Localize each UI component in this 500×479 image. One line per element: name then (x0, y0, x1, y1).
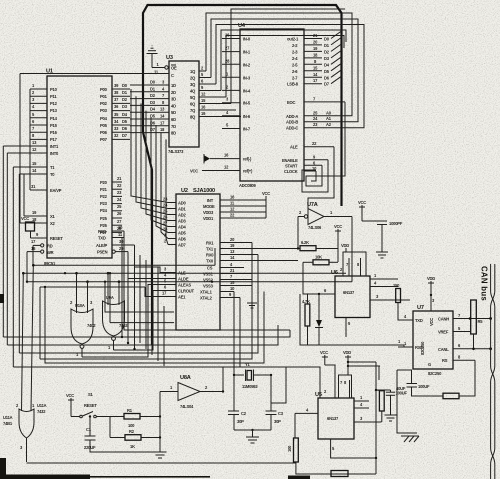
svg-text:XTAL2: XTAL2 (200, 296, 213, 301)
svg-text:ADD-B: ADD-B (286, 120, 298, 125)
wire U9A output to U2 (114, 291, 169, 351)
U1 pin T1 15 (13, 161, 55, 170)
node dot RD/U9A (107, 272, 110, 275)
U3 pin C (20, 73, 174, 223)
svg-text:P06: P06 (100, 130, 108, 135)
svg-text:CAN bus: CAN bus (480, 266, 489, 301)
svg-text:EA/VP: EA/VP (50, 188, 62, 193)
svg-text:ADD-C: ADD-C (286, 126, 298, 131)
svg-text:VSS3: VSS3 (203, 284, 214, 289)
resistor R5 120 termination (469, 300, 484, 350)
capacitor C2 30P (228, 411, 247, 430)
node dot WR/U10A (86, 280, 89, 283)
svg-text:C: C (171, 73, 174, 78)
U4 pin ref(+) 12, VCC (190, 165, 253, 174)
svg-text:4D: 4D (171, 103, 176, 108)
inverter U8A 74LS04 (160, 375, 223, 409)
svg-text:VCC: VCC (66, 393, 74, 398)
svg-text:PSEN: PSEN (97, 250, 108, 255)
svg-text:AD7: AD7 (178, 243, 187, 248)
svg-text:100: 100 (287, 445, 292, 452)
svg-text:U11A: U11A (37, 403, 47, 408)
svg-text:ALDE: ALDE (178, 277, 189, 282)
svg-text:30P: 30P (274, 419, 281, 424)
svg-text:74LS04: 74LS04 (180, 404, 194, 409)
svg-text:AD6: AD6 (178, 237, 187, 242)
svg-text:P22: P22 (100, 194, 108, 199)
svg-text:U8A: U8A (180, 375, 191, 381)
svg-text:CLOCK: CLOCK (284, 169, 298, 174)
svg-text:LSB-8: LSB-8 (287, 82, 299, 87)
node dots CANH CANL at bus (489, 317, 492, 350)
svg-text:6D: 6D (171, 117, 176, 122)
svg-text:P25: P25 (100, 216, 108, 221)
svg-text:VDD: VDD (427, 276, 435, 281)
crystal Y1 oscillator loop (223, 292, 286, 412)
resistor 10K (303, 255, 338, 295)
svg-text:P10: P10 (50, 87, 58, 92)
U3 pin OE 11 (bubble, tied to ground) (152, 54, 177, 75)
capacitor 100UF at U7 (396, 370, 430, 396)
svg-text:VCC: VCC (320, 350, 328, 355)
svg-text:VCC: VCC (262, 191, 270, 196)
U4 pin ADD-B 24 A1 (286, 116, 349, 125)
IC U1 89C51 (44, 69, 112, 267)
wire EA (29, 89, 31, 190)
svg-text:AD2: AD2 (178, 213, 187, 218)
svg-text:U10A: U10A (75, 303, 85, 308)
wire vertical bundle left of U2 (122, 238, 164, 367)
U4 pin ADD-A 25 A0 (286, 110, 342, 119)
svg-text:P07: P07 (100, 137, 108, 142)
svg-text:AD0: AD0 (178, 201, 187, 206)
resistor 10K at RS (420, 393, 459, 399)
wire U7A output down the right (351, 217, 353, 282)
module boundary thick rounded outline (143, 5, 342, 345)
ground below 100UF (385, 415, 397, 421)
svg-text:CANL: CANL (438, 347, 449, 352)
svg-text:OE: OE (171, 66, 177, 71)
wire bottom long rail from U11A (27, 462, 296, 464)
svg-text:P17: P17 (50, 137, 58, 142)
svg-text:VCC: VCC (334, 224, 342, 229)
svg-text:ALEAS: ALEAS (178, 283, 191, 288)
node dots bundle (44, 272, 213, 463)
U4 data bus fan diagonals to top bus (331, 31, 342, 84)
svg-text:U3: U3 (166, 55, 173, 61)
U2 right pins RX1 TX1 RX0 TX0 and VSS group (200, 237, 300, 301)
svg-text:6N137: 6N137 (343, 290, 355, 295)
wire RX line to U7 RXD (300, 294, 413, 347)
wire U7A input from TX1 (297, 217, 299, 249)
resistor on bottom rail (cut by scan) (331, 471, 348, 477)
node dots crystal loop (222, 374, 272, 431)
wire WR line from U1 across (26, 252, 352, 283)
diode U6 input LED (315, 293, 323, 345)
transceiver U7 82C250 (413, 305, 453, 376)
VCC symbol above 6.2K (334, 224, 342, 262)
svg-text:P03: P03 (100, 108, 108, 113)
svg-text:1000PF: 1000PF (389, 221, 403, 226)
svg-text:P21: P21 (100, 187, 108, 192)
wire U6 bottom pin 5 (346, 318, 351, 338)
svg-text:7432: 7432 (37, 409, 46, 414)
svg-text:IN-5: IN-5 (243, 101, 251, 106)
resistor vertical 150 right of U6 (393, 283, 403, 320)
left vertical wire INT1 down to bus (2, 146, 4, 337)
U1 pin X2 18 (20, 217, 56, 226)
svg-text:RXD: RXD (98, 229, 106, 234)
U1 left pins P10-P17 pins 1-8 (30, 83, 58, 142)
svg-text:7D: 7D (171, 124, 176, 129)
VCC symbol right of U2 (262, 191, 270, 218)
OR gate U11A 7432 pointing down (3, 265, 47, 462)
svg-text:6.2K: 6.2K (301, 240, 309, 245)
svg-text:U11A: U11A (3, 415, 13, 420)
svg-text:AD5: AD5 (178, 231, 187, 236)
svg-text:2-3: 2-3 (292, 49, 298, 54)
svg-text:INT1: INT1 (50, 144, 59, 149)
svg-text:P02: P02 (100, 101, 108, 106)
wire bus line y265 from WR region (32, 248, 215, 267)
IC U2 SJA1000 CAN controller (176, 188, 220, 330)
U4 pin ADD-C 23 A2 (286, 122, 356, 131)
resistor 4.7K vertical (302, 294, 310, 345)
VCC symbol right with 1000PF cap (358, 200, 382, 221)
svg-text:VDD: VDD (343, 350, 351, 355)
svg-text:VSS1: VSS1 (203, 272, 214, 277)
U4 pin ref(-) 16 with bus arrow (204, 153, 252, 164)
svg-text:CLROUT: CLROUT (178, 289, 195, 294)
svg-text:EOC: EOC (287, 100, 296, 105)
svg-text:IN-4: IN-4 (243, 88, 251, 93)
svg-text:VCC: VCC (190, 169, 198, 174)
svg-text:ALE: ALE (290, 145, 298, 150)
U4 pin ALE 22 (290, 141, 334, 150)
wire pair to U2 lower-left region (104, 272, 174, 323)
svg-text:RD: RD (47, 244, 53, 249)
optocoupler U5 6N137 (315, 389, 354, 439)
ground below 1000PF (376, 252, 388, 258)
svg-text:VDD: VDD (341, 243, 349, 248)
ground below U2 VSS pins (247, 274, 257, 309)
svg-text:INT0: INT0 (50, 151, 59, 156)
vertical control wires between U1 and bus (140, 255, 164, 361)
wire from U5 pin1 up to rail (378, 366, 380, 380)
svg-text:P13: P13 (50, 108, 58, 113)
svg-text:TXD: TXD (98, 236, 106, 241)
VDD symbol above U5 (343, 350, 380, 375)
hatched ground bottom right (397, 370, 419, 442)
resistor vertical right of U5 (376, 390, 384, 422)
U4 pin CLOCK 10 (284, 166, 317, 174)
svg-text:AE1: AE1 (178, 295, 186, 300)
svg-text:10K: 10K (315, 255, 322, 260)
svg-text:MODE: MODE (203, 204, 215, 209)
IC U4 ADC0809 (238, 23, 304, 188)
svg-text:SJA1000: SJA1000 (193, 188, 215, 194)
node dot WR/U9A (118, 280, 121, 283)
U2 left pins AD0-AD7 (163, 197, 187, 248)
wire bus line y287 (40, 287, 168, 359)
svg-text:74LS06: 74LS06 (308, 225, 322, 230)
svg-text:1D: 1D (171, 83, 176, 88)
svg-text:P11: P11 (50, 94, 57, 99)
svg-text:U5: U5 (315, 392, 322, 398)
ground at U3 OE (147, 46, 158, 54)
resistor 100 vertical bottom left of U5 (287, 438, 376, 474)
U1 pin INT1 13 (3, 140, 59, 149)
U1 right pins P00-P07 pins 39-32 with D0-D7 labels (100, 83, 130, 142)
U1 pin ALE/P 30 (96, 239, 135, 248)
wire START loop (306, 102, 345, 186)
left vertical wire T1 down (12, 167, 14, 367)
svg-text:ADD-A: ADD-A (286, 114, 298, 119)
svg-text:P14: P14 (50, 116, 58, 121)
capacitor 100UF at U5 (376, 390, 407, 415)
U2 right pins INT MODE VDD3 VDD1 (203, 195, 266, 222)
svg-text:RXD: RXD (415, 345, 423, 350)
U5 pins 7 8 loop (335, 375, 352, 398)
U7 pin RS 8 (442, 355, 475, 364)
svg-text:P23: P23 (100, 201, 108, 206)
left vertical X1 (23, 174, 25, 216)
svg-text:VREF: VREF (438, 330, 449, 335)
NOR gate U10A 7402 pointing down (70, 273, 96, 357)
wire U1 ALE to U2 ALE (135, 245, 169, 273)
svg-text:CS: CS (207, 266, 213, 271)
U7 pin CANL 6 (438, 343, 491, 352)
U3 left pins 1D-8D with D0-D7 wire labels (130, 80, 176, 136)
svg-text:U7A: U7A (307, 202, 318, 208)
svg-text:ENABLE: ENABLE (282, 158, 298, 163)
svg-text:ref(-): ref(-) (243, 157, 252, 162)
svg-text:2-2: 2-2 (292, 43, 298, 48)
wire ALE loop from U4 to lower logic (308, 147, 334, 217)
svg-text:8D: 8D (171, 131, 176, 136)
svg-text:P24: P24 (100, 208, 108, 213)
wire ENABLE loop (302, 160, 328, 192)
svg-text:RESET: RESET (84, 403, 97, 408)
svg-text:30P: 30P (237, 419, 244, 424)
scan artifact marks (0, 294, 310, 479)
wire data bus verticals U1/U3 to U2 AD0-AD7 (131, 89, 168, 245)
U7 pin VREF 5 (438, 326, 470, 335)
wire reset node vertical + ground (154, 392, 167, 459)
svg-text:ALE/P: ALE/P (96, 243, 108, 248)
switch S1 RESET (71, 392, 124, 418)
svg-text:RX0: RX0 (206, 253, 214, 258)
U1 pin RXD 10 (98, 225, 124, 234)
U1 pin WR 16 (bubble) (27, 246, 54, 255)
svg-text:P15: P15 (50, 123, 58, 128)
svg-text:IN-2: IN-2 (243, 62, 251, 67)
svg-text:AD1: AD1 (178, 207, 187, 212)
svg-text:IN-7: IN-7 (243, 127, 251, 132)
svg-text:2-5: 2-5 (292, 62, 298, 67)
svg-text:TXD: TXD (415, 318, 423, 323)
U4 left pins IN-0..IN-7 (222, 33, 251, 132)
svg-text:U2: U2 (181, 188, 188, 194)
svg-text:P05: P05 (100, 123, 108, 128)
svg-text:IN-0: IN-0 (243, 37, 251, 42)
svg-text:5D: 5D (171, 110, 176, 115)
svg-text:P12: P12 (50, 101, 58, 106)
svg-text:ref(+): ref(+) (243, 169, 253, 174)
IC U3 74LS373 latch (166, 55, 199, 154)
svg-text:VDD1: VDD1 (203, 216, 214, 221)
horizontal bus lines lower middle (3, 243, 320, 399)
svg-text:6N137: 6N137 (327, 416, 339, 421)
svg-text:IN-3: IN-3 (243, 75, 251, 80)
capacitor 1000PF (377, 221, 403, 252)
svg-text:P26: P26 (100, 223, 108, 228)
wire RS to resistor bottom (459, 360, 475, 396)
svg-text:P04: P04 (100, 116, 108, 121)
U7 pin CANH 7 (438, 313, 491, 322)
svg-text:IN-1: IN-1 (243, 50, 251, 55)
wire RXD to U5 loop (124, 231, 290, 330)
U7 pin 3 VDD (427, 276, 435, 311)
svg-text:2D: 2D (171, 90, 176, 95)
wire U6 pin6 left (319, 288, 335, 294)
VCC symbol above U5 (320, 350, 335, 380)
svg-text:100: 100 (128, 423, 135, 428)
svg-text:150: 150 (393, 283, 400, 288)
U1 pin PSEN 29 (bubble) (97, 246, 128, 255)
svg-text:2-6: 2-6 (292, 69, 298, 74)
svg-text:11M0592: 11M0592 (242, 384, 258, 389)
U7 pin TXD 4 (403, 314, 423, 323)
U1 pin RD 17 (bubble) (31, 239, 53, 249)
svg-text:P01: P01 (100, 94, 108, 99)
svg-text:IN-6: IN-6 (243, 114, 251, 119)
U7 pin RXD 1 (398, 341, 423, 350)
U1 pin X1 19 (24, 210, 56, 219)
wire RD line from U1 across (22, 245, 346, 274)
wire U1 PSEN down (128, 252, 168, 279)
svg-text:TX1: TX1 (206, 247, 214, 252)
svg-text:7402: 7402 (119, 323, 128, 328)
svg-text:WR: WR (47, 250, 54, 255)
svg-text:VDD3: VDD3 (203, 210, 214, 215)
U3 right pins 1Q-8Q (190, 66, 241, 120)
svg-text:out2-1: out2-1 (287, 37, 299, 42)
svg-text:AD4: AD4 (178, 225, 187, 230)
svg-text:74B1: 74B1 (3, 421, 13, 426)
wire vertical right of U5 (375, 362, 377, 474)
svg-text:2-7: 2-7 (292, 75, 298, 80)
wire VDD rail to vertical (347, 361, 376, 363)
CAN bus twisted pair lines (491, 264, 495, 479)
NOR gate U9A 7402 pointing down (103, 273, 129, 350)
U5 left pin wire (295, 408, 318, 439)
U1 pin T0 14 (19, 168, 55, 177)
svg-text:RESET: RESET (50, 236, 63, 241)
svg-text:AD3: AD3 (178, 219, 187, 224)
svg-text:ADC0809: ADC0809 (239, 183, 256, 188)
U1 pin EA/VP 31 (30, 184, 62, 193)
crystal Y1 (242, 362, 258, 389)
svg-text:1K: 1K (130, 444, 135, 449)
left vertical wire T0 down (18, 174, 20, 353)
U5 right pins (354, 395, 382, 422)
buffer U7A 74LS06 with input bubble (298, 202, 352, 230)
svg-text:U7: U7 (417, 305, 424, 311)
ground below crystal caps (234, 430, 271, 443)
svg-text:P20: P20 (100, 180, 108, 185)
U1 pin TXD 11 (98, 232, 124, 241)
left vertical wire INT0 down to bus (6, 153, 8, 345)
U4 pin EOC 7 (287, 96, 345, 105)
resistor R1 100 (124, 408, 160, 428)
svg-text:INT: INT (207, 198, 214, 203)
svg-text:RS: RS (442, 358, 448, 363)
svg-text:U6: U6 (331, 270, 338, 276)
svg-text:U4: U4 (238, 23, 246, 29)
U5 bottom pin 5 (331, 439, 376, 458)
U4 pin START 6 (285, 160, 322, 168)
svg-text:7402: 7402 (87, 323, 96, 328)
U2 left control pins ALE CS RD WR CLKOUT RST (162, 267, 195, 300)
node dot RD/U10A (75, 272, 78, 275)
svg-text:P16: P16 (50, 130, 58, 135)
wire TXD down (122, 238, 284, 338)
svg-text:G: G (428, 362, 431, 367)
U6 right pins to U7 (370, 273, 410, 300)
svg-text:VCC: VCC (21, 216, 29, 221)
optocoupler U6 6N137 (331, 267, 370, 318)
svg-text:CANH: CANH (438, 317, 449, 322)
svg-text:74LS373: 74LS373 (168, 149, 184, 154)
svg-text:RX1: RX1 (206, 241, 214, 246)
U1 pin INT0 12 (7, 147, 59, 156)
svg-text:82C250: 82C250 (428, 371, 442, 376)
capacitor C3 30P (266, 411, 284, 430)
U1 pin RESET 9 (31, 232, 64, 241)
svg-text:XTAL1: XTAL1 (200, 290, 213, 295)
top address bus nested lines (206, 9, 364, 128)
svg-text:P00: P00 (100, 87, 108, 92)
svg-text:2-4: 2-4 (292, 56, 298, 61)
U6 pins 7 8 loop with VDD (341, 243, 366, 276)
capacitor C1 22UF (84, 415, 160, 452)
U4 right data pins 2-1..2-8 D0-D7 (287, 33, 330, 87)
VCC pullup at RESET (21, 216, 35, 238)
wire U10A output to U2 (82, 285, 168, 358)
wire CLOCK loop (311, 171, 316, 181)
resistor R2 1K (110, 417, 160, 450)
U1 right pins P20-P27 pins 21-28 (100, 176, 122, 235)
svg-text:3D: 3D (171, 97, 176, 102)
reset circuit: VCC (66, 393, 74, 417)
svg-text:START: START (285, 163, 298, 168)
svg-text:4.7K: 4.7K (302, 299, 310, 304)
svg-text:100UF: 100UF (418, 384, 430, 389)
svg-text:VCC: VCC (358, 200, 366, 205)
svg-text:VCC: VCC (429, 318, 434, 326)
U4 pin ENABLE 9 (282, 154, 328, 163)
resistor 6.2K (297, 240, 338, 251)
svg-text:TX0: TX0 (206, 259, 214, 264)
